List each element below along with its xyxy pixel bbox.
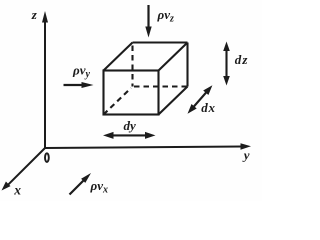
svg-text:y: y [242,148,250,163]
svg-text:ρvy: ρvy [72,63,90,81]
svg-text:dx: dx [201,100,216,115]
svg-text:z: z [31,7,38,22]
svg-text:dy: dy [124,118,137,133]
svg-text:ρvx: ρvx [90,178,108,196]
svg-text:x: x [13,183,21,198]
svg-text:ρvz: ρvz [157,7,174,25]
svg-text:dz: dz [235,52,249,67]
